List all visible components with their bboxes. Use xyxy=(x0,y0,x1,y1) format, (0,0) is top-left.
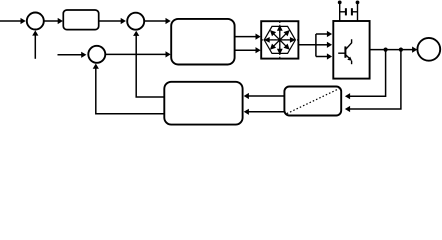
modulator axis horizontal dashed xyxy=(262,39,298,41)
summing junction S1 xyxy=(27,13,44,30)
transistor Q1 (inverter IGBT glyph) xyxy=(338,39,352,64)
wire gate signal bottom xyxy=(316,56,328,58)
wire S2 to current controller xyxy=(145,20,166,22)
wire filter to model upper xyxy=(248,95,284,97)
wire gate signal middle xyxy=(316,44,328,46)
DC terminal dot positive xyxy=(338,1,342,5)
wire filter to model lower xyxy=(248,111,284,113)
summing junction S2 xyxy=(127,13,144,30)
wire R1 to summing junction S2 xyxy=(99,20,121,22)
motor M xyxy=(417,38,440,61)
modulator axis vertical dashed xyxy=(279,22,281,59)
node current tap xyxy=(384,48,388,52)
wire G1 output d xyxy=(235,36,256,38)
inverter box U2 xyxy=(333,21,369,79)
wire flux reference input xyxy=(58,54,82,56)
wire model to S3 feedback xyxy=(96,68,165,114)
DC terminal dot negative xyxy=(356,1,360,5)
wire G1 output q xyxy=(235,49,256,51)
machine model block G2 xyxy=(164,82,242,125)
DC link capacitor C1 xyxy=(340,11,346,13)
wire current feedback down xyxy=(349,50,385,97)
wire speed reference input xyxy=(0,20,21,22)
modulator hexagon xyxy=(264,26,295,53)
DC link wire negative xyxy=(357,2,359,21)
wire U1 output to gate bus xyxy=(298,44,316,46)
filter block F1 (dashed slash) xyxy=(284,87,341,116)
node voltage tap xyxy=(399,48,403,52)
wire inverter to motor xyxy=(370,49,413,51)
wire S1 bottom input xyxy=(34,35,36,59)
wire S3 to current controller lower input xyxy=(106,53,166,55)
wire model to S2 feedback xyxy=(136,35,164,97)
wire S1 to controller R1 xyxy=(44,20,58,22)
modulator box U1 (space vector modulator) xyxy=(261,21,298,58)
filter diagonal dotted line xyxy=(287,89,339,114)
current controller block G1 xyxy=(171,19,234,65)
wire gate signal top xyxy=(316,33,328,35)
DC link wire positive xyxy=(339,2,341,21)
wire voltage feedback down xyxy=(349,50,401,109)
gate bus xyxy=(315,34,317,57)
controller block R1 xyxy=(63,10,98,30)
modulator star arrows xyxy=(264,25,296,55)
summing junction S3 xyxy=(88,46,105,63)
